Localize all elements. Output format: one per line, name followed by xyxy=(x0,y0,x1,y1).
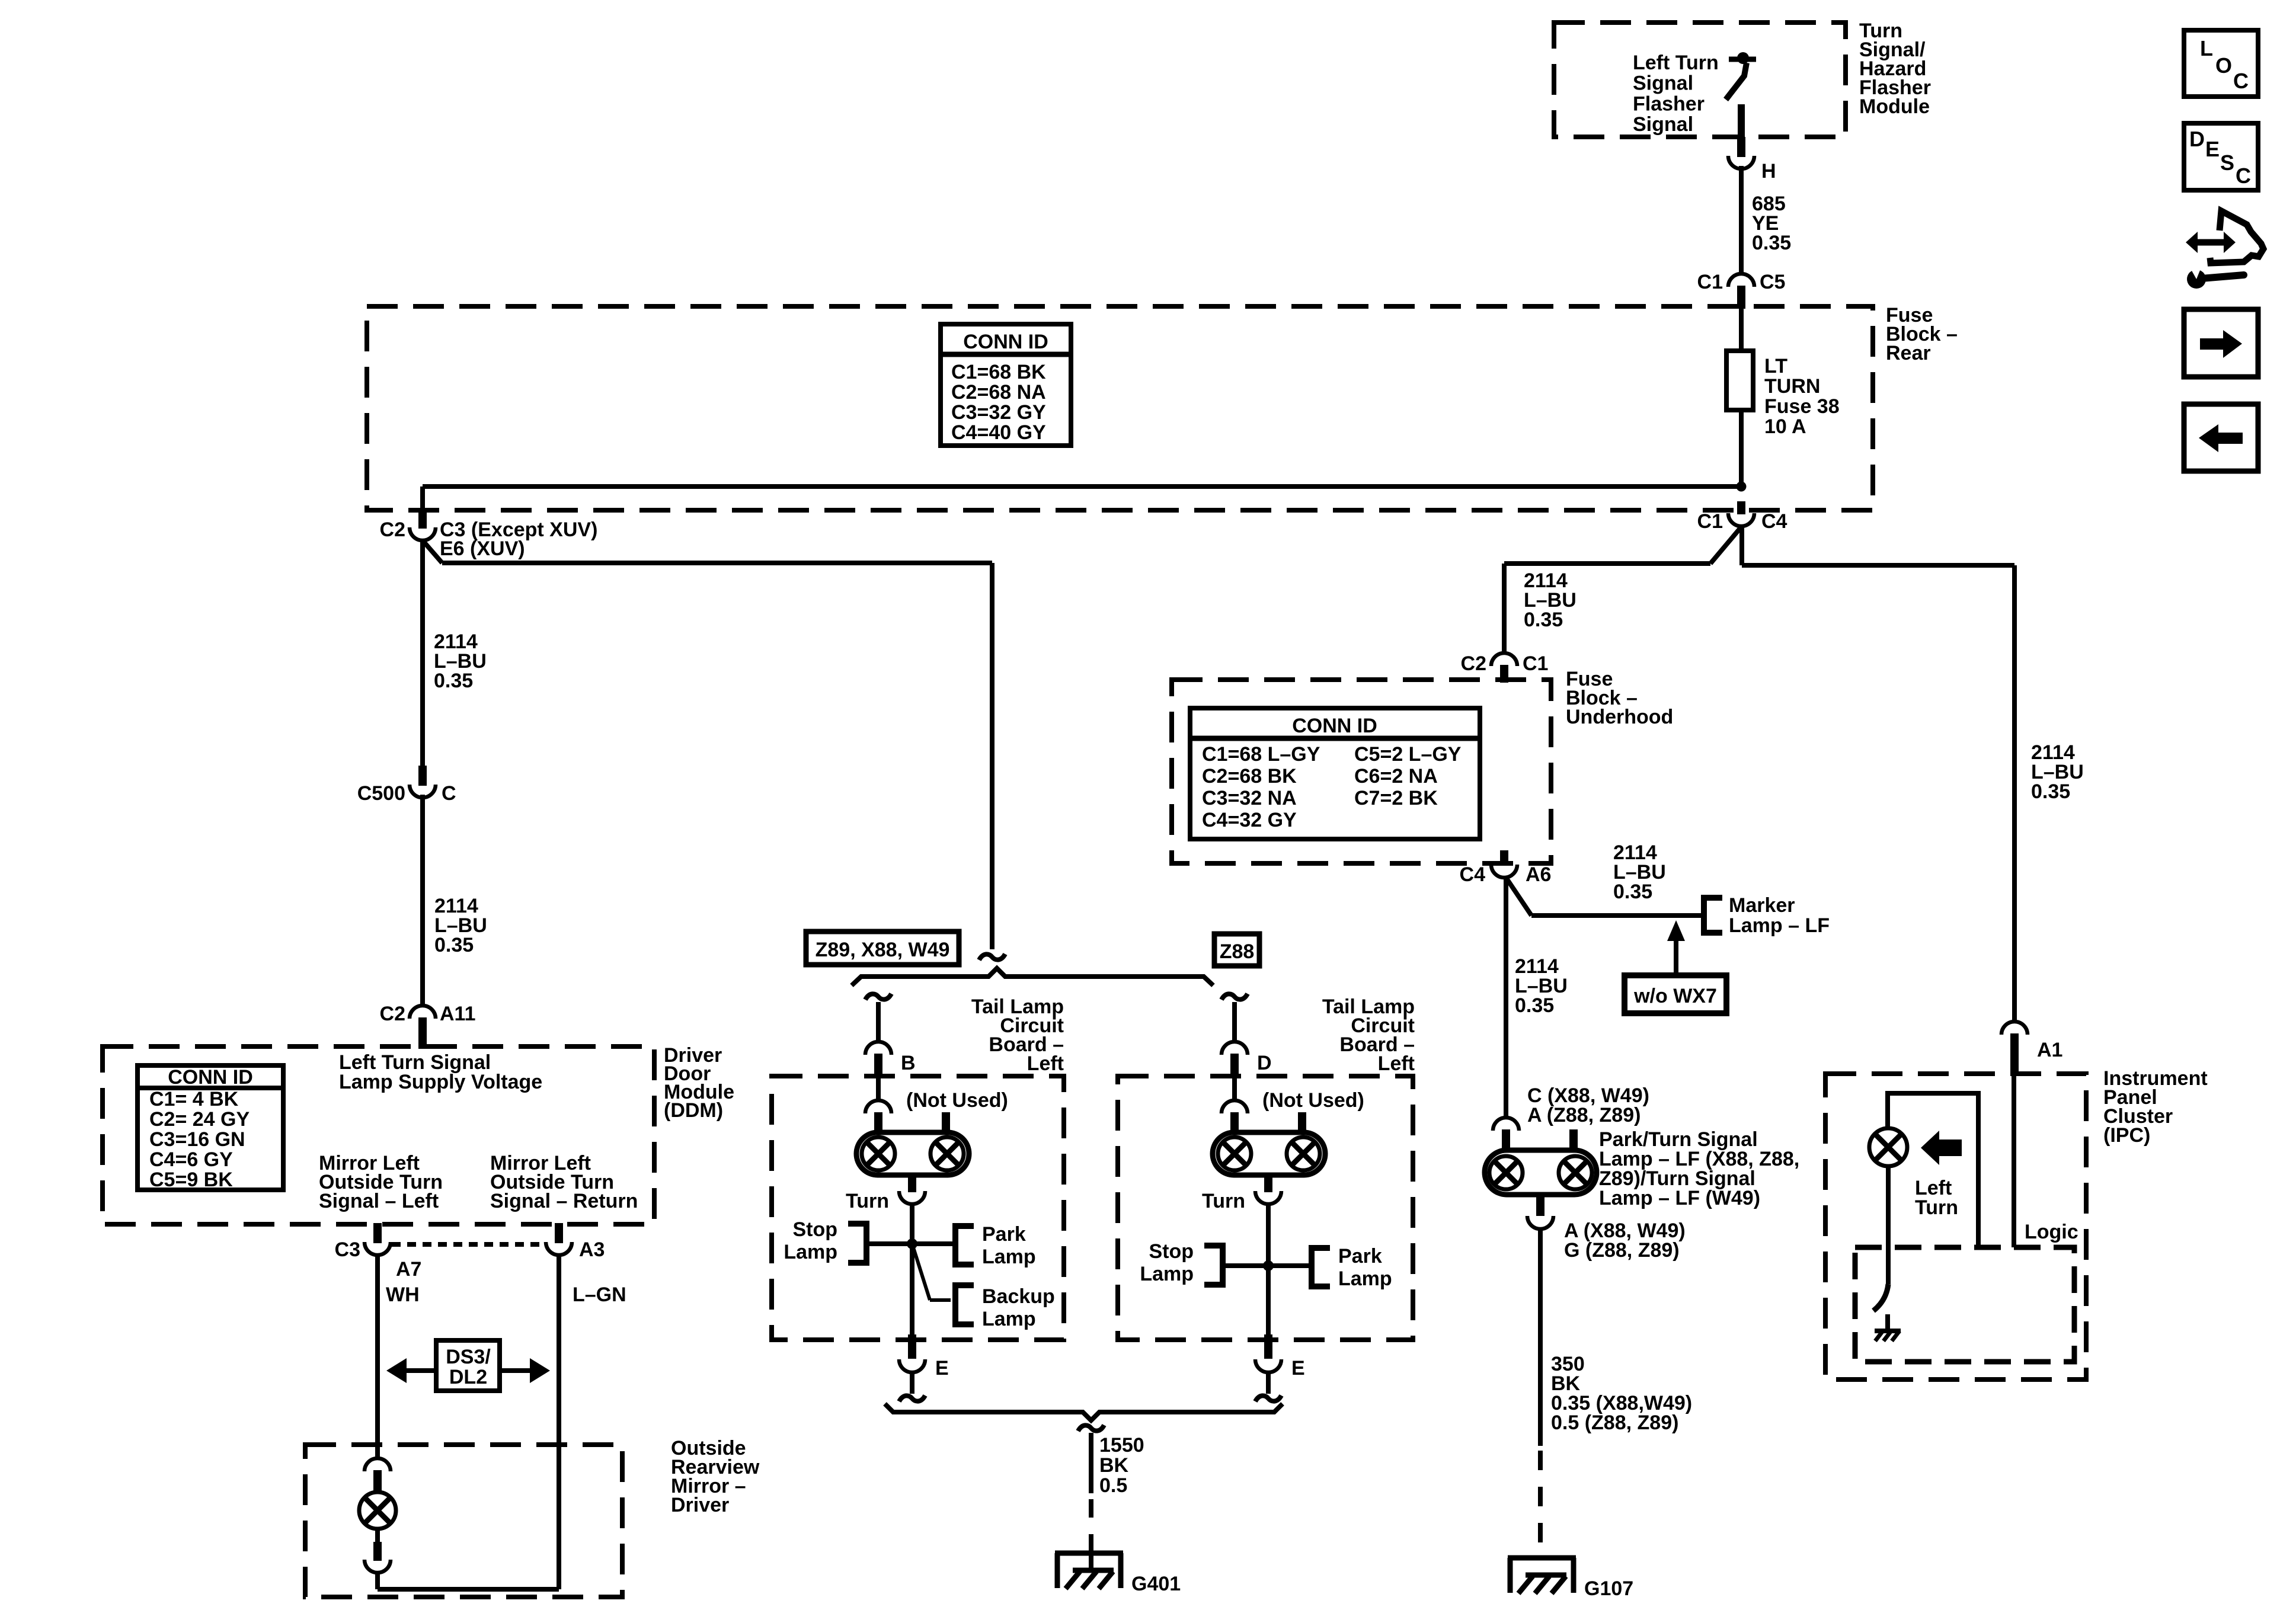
svg-text:C5=2 L–GY: C5=2 L–GY xyxy=(1354,743,1462,766)
svg-text:E: E xyxy=(1291,1357,1305,1379)
svg-text:C7=2 BK: C7=2 BK xyxy=(1354,787,1438,809)
svg-text:0.5 (Z88, Z89): 0.5 (Z88, Z89) xyxy=(1551,1411,1678,1434)
svg-text:H: H xyxy=(1761,160,1776,183)
svg-text:Signal – Return: Signal – Return xyxy=(490,1190,638,1212)
svg-text:CONN ID: CONN ID xyxy=(1292,715,1377,737)
svg-text:C2=68 NA: C2=68 NA xyxy=(951,381,1046,404)
svg-text:Lamp: Lamp xyxy=(1338,1267,1392,1290)
svg-text:Z89, X88, W49: Z89, X88, W49 xyxy=(816,939,950,961)
svg-text:C2: C2 xyxy=(380,518,405,541)
svg-text:S: S xyxy=(2220,151,2234,175)
svg-text:CONN ID: CONN ID xyxy=(963,331,1048,353)
svg-text:Marker: Marker xyxy=(1729,894,1795,917)
svg-text:C: C xyxy=(2236,164,2251,188)
svg-text:L: L xyxy=(2200,36,2213,60)
svg-text:0.35: 0.35 xyxy=(434,670,473,692)
svg-text:0.35: 0.35 xyxy=(2031,780,2070,803)
svg-text:O: O xyxy=(2215,53,2232,78)
svg-text:BK: BK xyxy=(1099,1454,1129,1477)
svg-text:Park: Park xyxy=(1338,1245,1382,1267)
svg-text:G401: G401 xyxy=(1131,1573,1181,1595)
svg-text:Underhood: Underhood xyxy=(1566,706,1673,728)
svg-text:DS3/: DS3/ xyxy=(446,1346,491,1368)
svg-text:Left: Left xyxy=(1027,1052,1064,1075)
svg-text:Lamp Supply Voltage: Lamp Supply Voltage xyxy=(339,1071,542,1093)
svg-text:C1= 4 BK: C1= 4 BK xyxy=(149,1088,239,1110)
svg-text:C4=40 GY: C4=40 GY xyxy=(951,421,1046,444)
svg-text:Lamp: Lamp xyxy=(982,1246,1036,1268)
svg-text:A (Z88, Z89): A (Z88, Z89) xyxy=(1527,1104,1641,1126)
svg-text:C5: C5 xyxy=(1760,271,1785,293)
svg-text:C4: C4 xyxy=(1761,510,1787,533)
svg-text:Rear: Rear xyxy=(1886,342,1931,364)
svg-text:Signal: Signal xyxy=(1633,113,1693,136)
svg-text:0.35: 0.35 xyxy=(1515,994,1554,1017)
svg-text:0.35: 0.35 xyxy=(1613,881,1652,903)
svg-text:E: E xyxy=(2205,137,2220,161)
svg-text:Signal – Left: Signal – Left xyxy=(319,1190,439,1212)
svg-text:A1: A1 xyxy=(2037,1039,2062,1061)
svg-text:C1=68 L–GY: C1=68 L–GY xyxy=(1202,743,1320,766)
svg-text:C500: C500 xyxy=(357,782,405,805)
svg-text:(Not Used): (Not Used) xyxy=(906,1089,1008,1112)
svg-text:Signal: Signal xyxy=(1633,72,1693,95)
svg-text:C5=9 BK: C5=9 BK xyxy=(149,1169,233,1191)
svg-text:D: D xyxy=(2189,127,2205,151)
svg-text:A6: A6 xyxy=(1526,863,1551,886)
svg-text:(Not Used): (Not Used) xyxy=(1262,1089,1364,1112)
svg-text:A3: A3 xyxy=(579,1238,605,1261)
svg-text:Module: Module xyxy=(1859,95,1930,118)
svg-text:C3=16 GN: C3=16 GN xyxy=(149,1128,245,1151)
svg-text:C1: C1 xyxy=(1697,271,1723,293)
svg-text:w/o WX7: w/o WX7 xyxy=(1633,985,1717,1007)
svg-text:A11: A11 xyxy=(440,1003,476,1025)
svg-text:(DDM): (DDM) xyxy=(664,1099,723,1122)
svg-text:D: D xyxy=(1257,1052,1272,1074)
svg-text:C1: C1 xyxy=(1697,510,1723,533)
svg-text:E: E xyxy=(935,1357,949,1379)
svg-text:0.35: 0.35 xyxy=(1524,609,1563,631)
svg-text:Lamp: Lamp xyxy=(982,1308,1036,1330)
svg-text:1550: 1550 xyxy=(1099,1434,1144,1457)
svg-text:C2=68 BK: C2=68 BK xyxy=(1202,765,1297,788)
svg-text:0.35: 0.35 xyxy=(434,934,474,956)
svg-text:WH: WH xyxy=(386,1283,420,1306)
svg-text:Flasher: Flasher xyxy=(1633,92,1705,115)
svg-text:C6=2 NA: C6=2 NA xyxy=(1354,765,1438,788)
svg-text:C: C xyxy=(442,782,456,805)
svg-text:Lamp: Lamp xyxy=(784,1241,837,1263)
svg-text:L–GN: L–GN xyxy=(573,1283,626,1306)
svg-text:G107: G107 xyxy=(1584,1577,1633,1600)
svg-text:C2= 24 GY: C2= 24 GY xyxy=(149,1108,250,1131)
svg-text:E6 (XUV): E6 (XUV) xyxy=(440,537,525,560)
svg-text:C2: C2 xyxy=(1461,652,1486,675)
svg-text:Left: Left xyxy=(1378,1052,1415,1075)
svg-text:0.5: 0.5 xyxy=(1099,1474,1127,1497)
svg-text:Turn: Turn xyxy=(1915,1196,1958,1219)
svg-text:Turn: Turn xyxy=(846,1190,889,1212)
svg-text:0.35: 0.35 xyxy=(1752,232,1791,254)
svg-text:Z88: Z88 xyxy=(1220,940,1255,963)
svg-text:B: B xyxy=(901,1052,916,1074)
svg-text:Turn: Turn xyxy=(1202,1190,1245,1212)
svg-text:Driver: Driver xyxy=(671,1494,729,1516)
svg-text:Stop: Stop xyxy=(792,1218,837,1241)
svg-text:A7: A7 xyxy=(396,1258,421,1281)
svg-text:DL2: DL2 xyxy=(449,1366,487,1388)
svg-text:(IPC): (IPC) xyxy=(2103,1124,2150,1147)
svg-text:Stop: Stop xyxy=(1149,1240,1194,1263)
svg-text:C: C xyxy=(2233,69,2249,93)
svg-text:Lamp: Lamp xyxy=(1140,1263,1194,1285)
svg-text:Lamp – LF (W49): Lamp – LF (W49) xyxy=(1599,1187,1760,1209)
svg-text:C3=32 NA: C3=32 NA xyxy=(1202,787,1297,809)
svg-text:Backup: Backup xyxy=(982,1285,1055,1308)
svg-text:C3=32 GY: C3=32 GY xyxy=(951,401,1046,424)
svg-text:C1: C1 xyxy=(1523,652,1548,675)
svg-text:Left Turn: Left Turn xyxy=(1633,52,1719,74)
svg-text:10 A: 10 A xyxy=(1764,415,1806,438)
svg-text:CONN ID: CONN ID xyxy=(168,1066,253,1089)
svg-text:C4=32 GY: C4=32 GY xyxy=(1202,809,1297,831)
svg-text:G (Z88, Z89): G (Z88, Z89) xyxy=(1564,1239,1680,1262)
svg-text:Fuse 38: Fuse 38 xyxy=(1764,395,1840,418)
svg-text:C1=68 BK: C1=68 BK xyxy=(951,361,1046,383)
svg-text:C4=6 GY: C4=6 GY xyxy=(149,1148,233,1171)
svg-text:C2: C2 xyxy=(380,1003,405,1025)
svg-text:TURN: TURN xyxy=(1764,375,1820,398)
svg-text:Lamp – LF: Lamp – LF xyxy=(1729,914,1830,937)
svg-text:Logic: Logic xyxy=(2025,1221,2078,1243)
svg-text:Park: Park xyxy=(982,1223,1026,1246)
svg-text:C4: C4 xyxy=(1460,863,1486,886)
svg-text:LT: LT xyxy=(1764,355,1787,377)
svg-text:C3: C3 xyxy=(335,1238,360,1261)
